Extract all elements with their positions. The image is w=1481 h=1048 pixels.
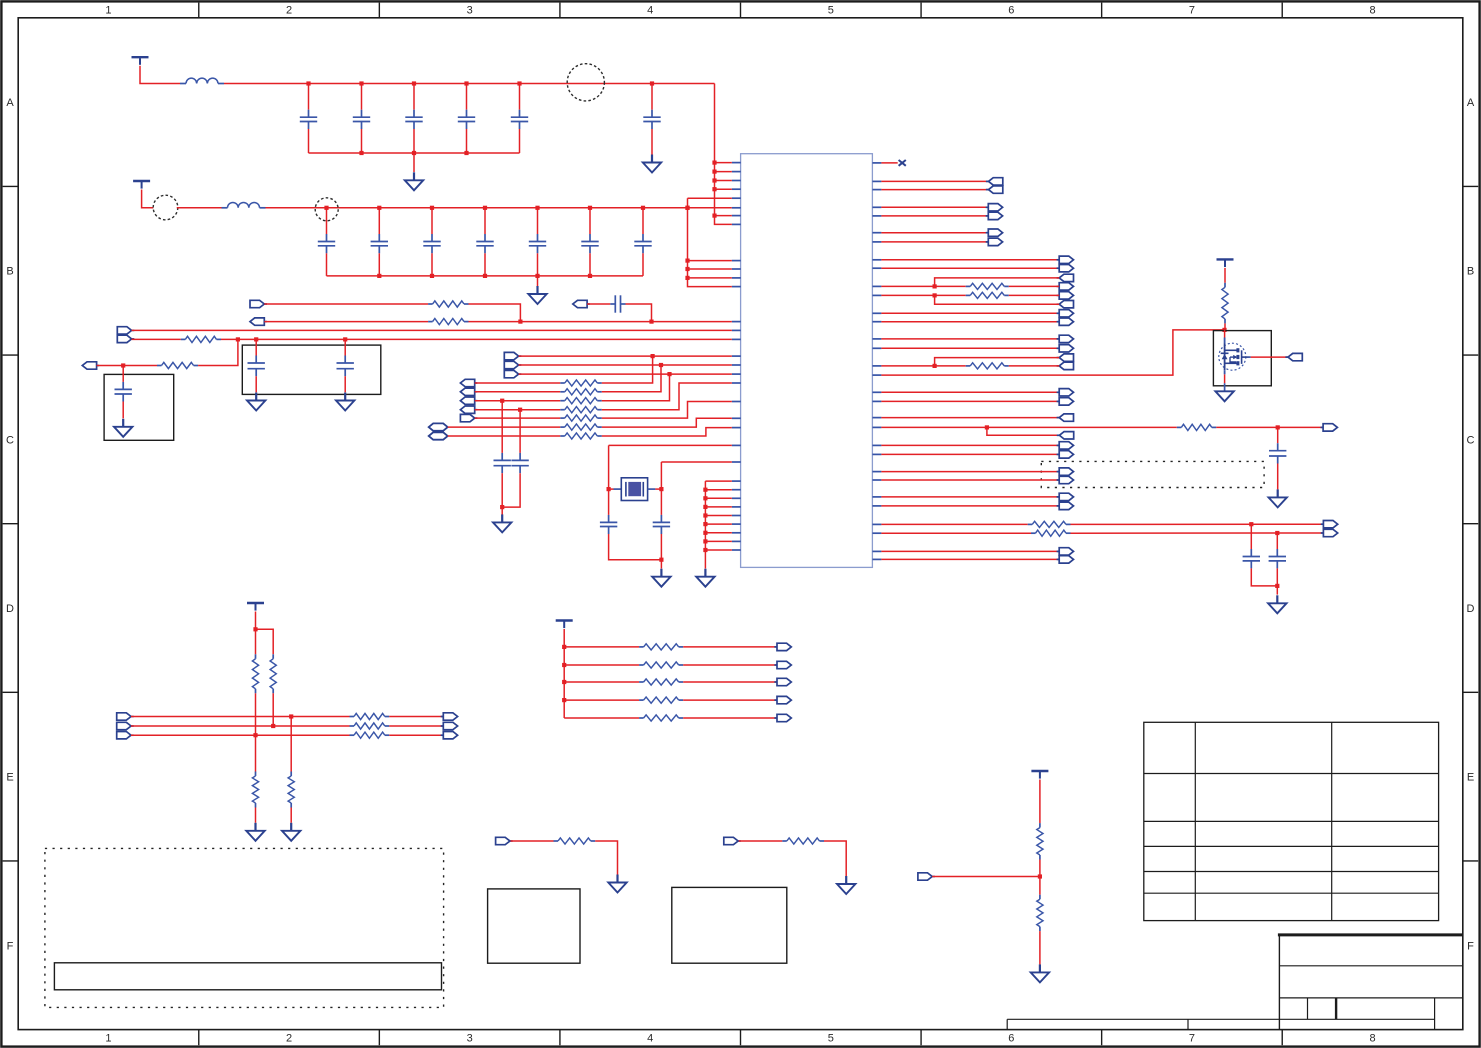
svg-text:B: B bbox=[1467, 266, 1474, 278]
power symbol VCC1 bar bbox=[132, 57, 149, 65]
wire bus GPIO stub 506.9 bbox=[705, 506, 731, 508]
wire row 295 b bbox=[1009, 294, 1059, 296]
wire vcc4 stem bbox=[255, 612, 257, 630]
note box NB1 bbox=[54, 963, 441, 990]
svg-text:D: D bbox=[1467, 603, 1475, 615]
resistor R35 bbox=[350, 723, 390, 729]
ground GND C16 bbox=[643, 155, 661, 173]
capacitor C10 bbox=[300, 84, 317, 154]
wire xtal row1 bbox=[609, 444, 732, 446]
port P7 bbox=[504, 352, 521, 359]
port P37 bbox=[1057, 362, 1074, 369]
port P82 bbox=[724, 837, 741, 844]
Q1 source lead bbox=[1224, 370, 1226, 391]
junction node 716 bbox=[289, 714, 293, 718]
port P62 bbox=[117, 732, 134, 739]
wire row 295 a bbox=[881, 294, 965, 296]
IC U1 left pins bbox=[732, 163, 741, 550]
wire R51 bottom bbox=[1039, 931, 1041, 964]
wire row 286 b bbox=[1009, 285, 1059, 287]
junction node 400 drop bbox=[500, 399, 504, 403]
wire row 400.7 b bbox=[602, 374, 670, 401]
sheet number strip bbox=[1007, 1019, 1279, 1029]
shield box SH2 bbox=[104, 374, 174, 440]
resistor R6 bbox=[560, 389, 602, 395]
resistor R11 bbox=[560, 433, 602, 439]
wire vcc6 stem bbox=[1039, 780, 1041, 824]
junction xtal node R bbox=[659, 487, 663, 491]
group outline GB2 bbox=[45, 848, 444, 1007]
port P3 bbox=[573, 300, 590, 307]
resistor R7 bbox=[560, 398, 602, 404]
junction node 629 bbox=[253, 627, 257, 631]
junction node 374 bbox=[667, 372, 671, 376]
wire hook 304 bbox=[935, 295, 1060, 304]
wire row 505.9 bbox=[881, 505, 1059, 507]
svg-text:5: 5 bbox=[828, 1033, 834, 1045]
wire C8 drop bbox=[502, 473, 520, 507]
wire hook 277 bbox=[935, 278, 1060, 287]
wire row 330 bbox=[132, 329, 732, 331]
wire row 445.4 bbox=[881, 444, 1059, 446]
ground GND C11 bbox=[1269, 489, 1287, 507]
port P44 bbox=[1057, 451, 1074, 458]
resistor R44 bbox=[639, 715, 683, 721]
Q1 out lead bbox=[1249, 356, 1251, 358]
port P1 bbox=[250, 300, 267, 307]
port P33 bbox=[1057, 318, 1074, 325]
wire ladder row 682 a bbox=[564, 681, 639, 683]
junction bus A tap 215.6 bbox=[712, 214, 716, 218]
ground GND Q1 bbox=[1215, 391, 1233, 401]
capacitor C7 bbox=[494, 401, 511, 474]
wire C9 bottom bbox=[609, 534, 662, 560]
ground GND C4 bbox=[247, 393, 265, 411]
wire bus A stub 215.6 bbox=[715, 215, 732, 217]
wire row 533 a bbox=[881, 532, 1031, 534]
wire row 356 bbox=[519, 355, 732, 357]
resistor R32 bbox=[252, 772, 258, 808]
wire branch 435 bbox=[987, 427, 1060, 435]
junction rail B node 8 bbox=[685, 206, 689, 210]
port P72 bbox=[774, 678, 791, 685]
wire dsec row 735.2 b bbox=[389, 734, 443, 736]
junction ladder tap 665 bbox=[562, 663, 566, 667]
port P61 bbox=[117, 722, 134, 729]
port P53 bbox=[1285, 353, 1302, 360]
wire C5 gnd drop bbox=[344, 376, 346, 392]
wire bus B stub 269 bbox=[688, 268, 732, 270]
wire row 365 b bbox=[1009, 365, 1059, 367]
port P60 bbox=[117, 713, 134, 720]
ground GND C7C8 bbox=[493, 514, 511, 532]
resistor R53 bbox=[782, 838, 824, 844]
wire row 286 a bbox=[881, 285, 965, 287]
wire row 524 b bbox=[1071, 523, 1324, 525]
wire vcc5 stem bbox=[563, 629, 565, 718]
wire rail A bbox=[224, 83, 715, 85]
resistor R1 bbox=[428, 301, 468, 307]
capacitor C5 bbox=[337, 339, 354, 376]
wire C7 drop bbox=[501, 473, 503, 514]
wire C3 to row321 bbox=[626, 304, 652, 322]
junction node 295 bbox=[933, 293, 937, 297]
ground GND rail B bbox=[528, 286, 546, 304]
IC U1 body bbox=[741, 154, 873, 568]
port P39 bbox=[1057, 398, 1074, 405]
junction node 524 bbox=[1249, 522, 1253, 526]
ground GND rc1 bbox=[608, 875, 626, 893]
svg-text:E: E bbox=[6, 772, 13, 784]
capacitor C9 bbox=[600, 489, 617, 534]
resistor R22 bbox=[966, 363, 1009, 369]
wire VCC1 stem bbox=[140, 66, 180, 84]
resistor R3 bbox=[181, 336, 221, 342]
resistor R33 bbox=[288, 772, 294, 808]
ground GND chainC bbox=[282, 823, 300, 841]
junction node 735 bbox=[253, 733, 257, 737]
junction xtal node L bbox=[607, 487, 611, 491]
wire C4 gnd drop bbox=[255, 376, 257, 392]
wire row 321 b bbox=[469, 321, 732, 323]
junction rail A node 6 bbox=[650, 81, 654, 85]
port P2 bbox=[250, 318, 267, 325]
port P4 bbox=[117, 327, 134, 334]
wire bus A stub 171.6 bbox=[715, 171, 732, 173]
resistor R43 bbox=[639, 697, 683, 703]
wire nc stub bbox=[881, 162, 897, 164]
resistor R50 bbox=[1037, 823, 1043, 859]
junction node 339 x256 bbox=[254, 337, 258, 341]
wire bus A stub 162.6 bbox=[715, 162, 732, 164]
wire row 480 bbox=[881, 479, 1059, 481]
wire R51 top bbox=[1039, 877, 1041, 895]
junction rail B gnd node 3 bbox=[483, 274, 487, 278]
wire row 339 a bbox=[132, 338, 181, 340]
capacitor C3 bbox=[587, 295, 625, 312]
power symbol VCC2 bar bbox=[133, 181, 150, 189]
junction bus GPIO tap 541.4 bbox=[703, 539, 707, 543]
wire row 365 a bbox=[97, 365, 157, 367]
capacitor C11 bbox=[1269, 427, 1286, 463]
svg-text:4: 4 bbox=[647, 1033, 653, 1045]
port P64 bbox=[441, 722, 458, 729]
capacitor C13 bbox=[1269, 533, 1286, 568]
ground GND C12C13 bbox=[1268, 595, 1286, 613]
junction rail A node 4 bbox=[464, 81, 468, 85]
shield box SH1 bbox=[242, 345, 380, 394]
junction node 427 branch bbox=[985, 425, 989, 429]
resistor R34 bbox=[350, 713, 390, 719]
junction node 356 bbox=[651, 354, 655, 358]
resistor R9 bbox=[560, 415, 602, 421]
resistor R36 bbox=[350, 732, 390, 738]
wire ladder row 718 a bbox=[564, 717, 639, 719]
port P71 bbox=[774, 661, 791, 668]
group outline GB1 bbox=[1041, 461, 1264, 487]
resistor R24 bbox=[1028, 521, 1071, 527]
capacitor C26 bbox=[634, 208, 651, 276]
wire row 427 a bbox=[448, 426, 561, 428]
current probe J1 bbox=[567, 64, 604, 101]
svg-text:E: E bbox=[1467, 772, 1474, 784]
transistor box Q1 outline bbox=[1213, 331, 1271, 386]
port P45 bbox=[1057, 468, 1074, 475]
junction node 726 bbox=[271, 724, 275, 728]
wire ladder row 682 b bbox=[683, 681, 777, 683]
ground GND chainA bbox=[246, 823, 264, 841]
svg-text:7: 7 bbox=[1189, 5, 1195, 17]
port P31 bbox=[1057, 301, 1074, 308]
wire row 409 a bbox=[475, 409, 561, 411]
port P40 bbox=[1057, 414, 1074, 421]
wire row 427 b bbox=[1216, 426, 1323, 428]
port P34 bbox=[1057, 335, 1074, 342]
svg-text:7: 7 bbox=[1189, 1033, 1195, 1045]
port P35 bbox=[1057, 345, 1074, 352]
port P11 bbox=[460, 388, 477, 395]
junction rail B node 1 bbox=[324, 206, 328, 210]
wire bus GPIO stub 550 bbox=[705, 549, 731, 551]
resistor R2 bbox=[428, 319, 468, 325]
wire row 391.8 b bbox=[602, 365, 661, 392]
svg-text:A: A bbox=[1467, 97, 1475, 109]
wire rc2 b bbox=[824, 841, 846, 876]
wire row 409 b bbox=[602, 383, 732, 410]
capacitor C10 bbox=[653, 489, 670, 534]
port P38 bbox=[1057, 389, 1074, 396]
wire chainA top bbox=[255, 629, 257, 654]
ground GND xtal bbox=[652, 569, 670, 587]
resistor R21 bbox=[966, 292, 1009, 298]
port P30 bbox=[1057, 292, 1074, 299]
resistor R10 bbox=[560, 424, 602, 430]
wire rc2 a bbox=[739, 840, 783, 842]
title block bbox=[1278, 935, 1463, 1030]
wire row 427 a bbox=[881, 426, 1176, 428]
capacitor C8 bbox=[511, 410, 528, 474]
wire row 321.7 bbox=[881, 321, 1059, 323]
junction rail B node 5 bbox=[535, 206, 539, 210]
port P8 bbox=[504, 361, 521, 368]
wire row 559.4 bbox=[881, 558, 1059, 560]
wire row 496.9 bbox=[881, 496, 1059, 498]
wire C6 gnd drop bbox=[122, 402, 124, 419]
port P50 bbox=[1057, 556, 1074, 563]
capacitor C20 bbox=[318, 208, 335, 276]
capacitor C14 bbox=[511, 84, 528, 154]
resistor R5 bbox=[560, 380, 602, 386]
wire row 365 a bbox=[881, 365, 965, 367]
wire ladder row 646.9 b bbox=[683, 646, 777, 648]
wire row 400.7 a bbox=[475, 400, 561, 402]
port P6 bbox=[82, 362, 99, 369]
junction node 409 drop bbox=[518, 408, 522, 412]
probe loop J2 bbox=[153, 195, 178, 220]
wire chainA low bbox=[255, 735, 257, 771]
junction node 365 bbox=[659, 363, 663, 367]
svg-text:2: 2 bbox=[286, 1033, 292, 1045]
wire bus VCC1 to U1 bbox=[715, 84, 732, 225]
port P49 bbox=[1057, 548, 1074, 555]
svg-text:3: 3 bbox=[467, 1033, 473, 1045]
power symbol VCC5 bar bbox=[556, 621, 573, 629]
wire dsec row 726 a bbox=[131, 725, 350, 727]
wire rc1 a bbox=[511, 840, 554, 842]
wire bus GPIO stub 515.5 bbox=[705, 515, 731, 517]
svg-text:1: 1 bbox=[105, 1033, 111, 1045]
port P43 bbox=[1057, 442, 1074, 449]
port P12 bbox=[460, 397, 477, 404]
module box M2 bbox=[672, 887, 787, 963]
wire row 232.7 bbox=[881, 232, 988, 234]
wire bus GPIO stub 541.4 bbox=[705, 540, 731, 542]
capacitor C6 bbox=[115, 366, 132, 402]
wire bus A stub 180.5 bbox=[715, 180, 732, 182]
wire R30 bottom bbox=[272, 693, 274, 726]
svg-text:1: 1 bbox=[105, 5, 111, 17]
svg-text:8: 8 bbox=[1369, 5, 1375, 17]
port P80 bbox=[918, 873, 935, 880]
wire rail B gnd drop bbox=[537, 276, 539, 286]
wire rail B bypass bottom bbox=[327, 275, 644, 277]
wire Q1 source bbox=[1224, 374, 1226, 383]
junction bus A tap 180.5 bbox=[712, 178, 716, 182]
wire row 524 a bbox=[881, 523, 1027, 525]
ground GND rc2 bbox=[837, 876, 855, 894]
port P29 bbox=[1057, 283, 1074, 290]
wire row 383 b bbox=[602, 356, 653, 383]
junction drain node bbox=[1222, 328, 1226, 332]
port P22 bbox=[986, 204, 1003, 211]
wire mosfet gate run bbox=[881, 330, 1224, 375]
port P32 bbox=[1057, 310, 1074, 317]
junction rail A gnd node 2 bbox=[412, 151, 416, 155]
port P26 bbox=[1057, 256, 1074, 263]
junction node cap branch 321 bbox=[649, 320, 653, 324]
wire R50 bottom bbox=[1039, 860, 1041, 877]
capacitor C23 bbox=[476, 208, 493, 276]
wire row 436 a bbox=[448, 435, 561, 437]
wire C10 bottom bbox=[660, 534, 662, 569]
wire dsec row 735.2 a bbox=[131, 734, 350, 736]
wire rail A gnd drop bbox=[413, 153, 415, 172]
wire row 551.4 bbox=[881, 550, 1059, 552]
no-connect NC1 bbox=[899, 160, 906, 166]
wire dsec row 716.5 b bbox=[389, 716, 443, 718]
port P48 bbox=[1057, 502, 1074, 509]
junction rail B gnd node 4 bbox=[535, 274, 539, 278]
wire row 391.8 a bbox=[475, 391, 561, 393]
resistor R51 bbox=[1037, 895, 1043, 931]
junction rail B node 3 bbox=[430, 206, 434, 210]
wire row 259.8 bbox=[881, 259, 1059, 261]
svg-text:8: 8 bbox=[1369, 1033, 1375, 1045]
svg-text:6: 6 bbox=[1008, 5, 1014, 17]
svg-text:4: 4 bbox=[647, 5, 653, 17]
wire bus B stub 260.6 bbox=[688, 260, 732, 262]
wire row 418 a bbox=[475, 417, 561, 419]
wire row 215.9 bbox=[881, 215, 988, 217]
wire bus GPIO stub top bbox=[705, 480, 731, 482]
power symbol VCC3 bar bbox=[1217, 259, 1234, 267]
wire row 268.2 bbox=[881, 267, 1059, 269]
junction rail A gnd node 1 bbox=[359, 151, 363, 155]
port P20 bbox=[986, 178, 1003, 185]
junction node 533 bbox=[1275, 531, 1279, 535]
resistor R26 bbox=[1222, 283, 1228, 324]
port P21 bbox=[986, 186, 1003, 193]
wire row 339 b bbox=[221, 338, 732, 340]
wire row 401.4 bbox=[881, 400, 1059, 402]
svg-text:C: C bbox=[1467, 434, 1475, 446]
svg-text:6: 6 bbox=[1008, 1033, 1014, 1045]
resistor R4 bbox=[157, 362, 198, 368]
resistor R40 bbox=[639, 644, 683, 650]
junction bus GPIO tap 506.9 bbox=[703, 505, 707, 509]
wire bus GPIO stub 524.1 bbox=[705, 523, 731, 525]
junction node 365r bbox=[933, 364, 937, 368]
junction bus GPIO tap 524.1 bbox=[703, 522, 707, 526]
capacitor C21 bbox=[371, 208, 388, 276]
resistor R23 bbox=[1177, 424, 1217, 430]
svg-text:C: C bbox=[6, 434, 14, 446]
junction ladder tap 700.1 bbox=[562, 698, 566, 702]
port P27 bbox=[1057, 265, 1074, 272]
junction rail A node 2 bbox=[359, 81, 363, 85]
wire chainA gnd wire bbox=[255, 808, 257, 823]
resistor R52 bbox=[554, 838, 596, 844]
wire pullup stem bbox=[1224, 268, 1226, 283]
junction node 365 bbox=[121, 363, 125, 367]
capacitor C12 bbox=[405, 84, 422, 154]
wire row 533 b bbox=[1071, 532, 1324, 534]
wire Q1 out bbox=[1251, 356, 1288, 358]
power symbol VCC4 bar bbox=[247, 603, 264, 611]
inductor FB1 bbox=[180, 78, 224, 83]
junction node 286 bbox=[933, 284, 937, 288]
capacitor C24 bbox=[529, 208, 546, 276]
junction bus A tap 189.2 bbox=[712, 187, 716, 191]
ground GND R51 bbox=[1031, 964, 1049, 982]
wire rail B left bbox=[177, 207, 222, 209]
wire bus VCC2 to U1 bbox=[688, 198, 732, 286]
junction node 876 bbox=[1038, 874, 1042, 878]
port P70 bbox=[774, 643, 791, 650]
wire row 321 a bbox=[264, 321, 428, 323]
probe loop J3 bbox=[315, 198, 338, 221]
crystal Y1 bbox=[609, 478, 662, 501]
junction bus A tap 162.6 bbox=[712, 161, 716, 165]
wire xtal drop1 bbox=[608, 445, 610, 489]
power symbol VCC6 bar bbox=[1031, 771, 1048, 779]
resistor R31 bbox=[252, 654, 258, 693]
svg-text:3: 3 bbox=[467, 5, 473, 17]
wire rail B bbox=[266, 207, 732, 209]
revision table bbox=[1144, 722, 1439, 920]
wire bus GPIO stub 489.7 bbox=[705, 489, 731, 491]
wire row 471.6 bbox=[881, 471, 1059, 473]
wire ladder row 665 b bbox=[683, 664, 777, 666]
ground GND bus GPIO bbox=[696, 569, 714, 587]
port P16 bbox=[429, 432, 448, 439]
junction bus B tap 277.9 bbox=[685, 276, 689, 280]
wire row 304 to row321 bbox=[469, 304, 521, 322]
capacitor C16 bbox=[643, 84, 660, 155]
junction bus GPIO tap 532.8 bbox=[703, 531, 707, 535]
port P51 bbox=[1321, 521, 1338, 528]
wire rc1 b bbox=[595, 841, 617, 875]
